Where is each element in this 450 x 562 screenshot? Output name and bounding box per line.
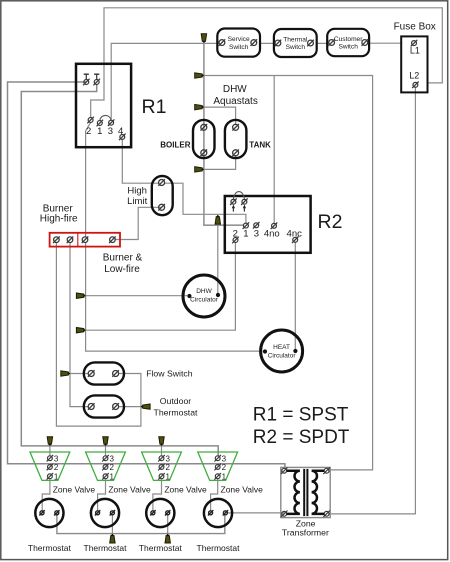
- svg-text:2: 2: [86, 126, 91, 137]
- svg-text:3: 3: [222, 454, 227, 463]
- wire thermostat2 drop: [111, 515, 113, 534]
- thermostat 2: [91, 499, 119, 527]
- svg-text:1: 1: [54, 472, 59, 481]
- wire R1 terminal2 down to burner box terminal3: [86, 123, 91, 237]
- wire valve2 to thermostat2: [98, 479, 106, 511]
- zone valve 1: [30, 452, 70, 481]
- svg-text:R2: R2: [318, 211, 343, 233]
- label Thermostat 1: [28, 543, 72, 553]
- label Thermostat 3: [139, 543, 183, 553]
- svg-text:3: 3: [54, 454, 59, 463]
- fuse box: [401, 36, 427, 92]
- flow arrow at DHW circulator riser: [215, 215, 220, 224]
- svg-text:DHW: DHW: [223, 84, 247, 95]
- wire burner terminal2 down to outdoor thermostat left: [70, 242, 89, 406]
- DHW circulator: [183, 275, 225, 317]
- label R1 = SPST: [253, 405, 349, 426]
- svg-text:BOILER: BOILER: [160, 141, 190, 150]
- label Zone Valve 1: [53, 485, 96, 495]
- svg-text:Switch: Switch: [338, 44, 358, 51]
- svg-text:Thermostat: Thermostat: [28, 543, 72, 553]
- wire branch outdoor thermostat right: [118, 406, 141, 408]
- svg-text:3: 3: [254, 229, 259, 240]
- wire valve1 terminal3 stub: [49, 446, 51, 456]
- svg-text:1: 1: [165, 472, 170, 481]
- wire R1 coil B to left column down to valve-3 bus: [21, 85, 218, 456]
- wire R2 4nc down to heat circulator right dot: [294, 242, 296, 349]
- flow arrow at outdoor thermostat branch: [141, 404, 150, 409]
- svg-text:1: 1: [109, 472, 114, 481]
- wire service to thermal switch: [256, 42, 275, 44]
- svg-text:Thermostat: Thermostat: [139, 543, 183, 553]
- zone transformer: [281, 467, 330, 517]
- svg-text:HEAT: HEAT: [273, 344, 290, 351]
- wire valve1 to thermostat1: [42, 479, 50, 511]
- label TANK: [249, 141, 271, 150]
- wire thermal to customer switch: [313, 42, 330, 44]
- label R2: [318, 211, 343, 233]
- flow switch: [84, 362, 124, 384]
- svg-text:L1: L1: [410, 46, 420, 56]
- high limit: [152, 176, 173, 215]
- tank aquastat: [225, 120, 247, 158]
- wire customer switch to fuse L1: [367, 42, 401, 44]
- wire branch flow switch left: [70, 373, 89, 375]
- wire valve4 to thermostat4: [211, 479, 218, 511]
- flow arrow at zone valve 1 feed: [47, 437, 52, 446]
- wire branch to tank aquastat top: [204, 107, 236, 125]
- wire fuse L2 down to transformer secondary-right... primary-right bottom: [329, 87, 415, 514]
- wire branch to transformer primary-right via right column: [204, 76, 373, 470]
- svg-text:R2 = SPDT: R2 = SPDT: [253, 427, 350, 448]
- wire R1 terminal2 jog up to top and to fuse box L2: [91, 8, 443, 118]
- thermal switch: [274, 29, 317, 57]
- customer switch: [327, 29, 369, 56]
- svg-text:Zone Valve: Zone Valve: [164, 485, 207, 495]
- flow arrow at flow switch branch: [61, 371, 70, 376]
- wire high limit top to R2 terminal1: [164, 183, 246, 223]
- svg-text:3: 3: [109, 454, 114, 463]
- label Zone Valve 2: [108, 485, 151, 495]
- svg-text:4: 4: [118, 126, 123, 137]
- zone valve 3: [142, 452, 182, 481]
- label Zone Valve 4: [221, 485, 264, 495]
- svg-text:Aquastats: Aquastats: [213, 96, 257, 107]
- relay R2: [225, 192, 311, 253]
- wire R1 terminal4 down to high limit top: [122, 140, 159, 184]
- svg-text:TANK: TANK: [249, 141, 271, 150]
- svg-text:Service: Service: [228, 36, 250, 43]
- flow arrow at thermostat2 drop: [110, 534, 115, 543]
- wire tank aquastat bottom loop to main line: [204, 155, 236, 169]
- svg-text:1: 1: [97, 126, 102, 137]
- svg-text:2: 2: [54, 463, 59, 472]
- label BOILER: [160, 141, 190, 150]
- wire valve2 terminal3 stub: [105, 446, 107, 456]
- label Burner High-fire: [40, 204, 78, 225]
- label Zone Valve 3: [164, 485, 207, 495]
- wire branch to DHW circulator left: [86, 295, 187, 297]
- svg-text:2: 2: [109, 463, 114, 472]
- wire valve3 terminal3 stub: [161, 446, 163, 456]
- boiler aquastat: [193, 120, 215, 158]
- wire R1 terminal3 up to service switch: [111, 43, 219, 120]
- svg-text:DHW: DHW: [196, 288, 212, 295]
- wire burner terminal1 loop to flow and outdoor switch right side: [56, 242, 140, 426]
- heat circulator: [261, 330, 303, 372]
- flow arrow at DHW circulator branch: [76, 293, 85, 298]
- svg-text:2: 2: [233, 229, 238, 240]
- outdoor thermostat: [84, 395, 124, 417]
- label Thermostat 4: [197, 543, 241, 553]
- svg-text:Low-fire: Low-fire: [104, 264, 140, 275]
- wire thermostat3 drop: [167, 515, 169, 534]
- label R2 = SPDT: [253, 427, 350, 448]
- wire valve3 to thermostat3: [153, 479, 162, 511]
- flow arrow at zone valve 3 feed: [159, 437, 164, 446]
- wire thermostat chain bus: [57, 515, 225, 534]
- flow arrow at transformer primary branch: [195, 73, 204, 78]
- svg-text:Circulator: Circulator: [268, 353, 297, 360]
- svg-text:3: 3: [165, 454, 170, 463]
- wire R2 terminal2 down and left to column: [86, 243, 236, 331]
- wire thermostat4 right dot to transformer bottom-left: [227, 512, 285, 514]
- svg-text:Limit: Limit: [127, 196, 147, 207]
- svg-text:2: 2: [165, 463, 170, 472]
- svg-text:Zone Valve: Zone Valve: [221, 485, 264, 495]
- svg-text:Circulator: Circulator: [190, 297, 219, 304]
- label Thermostat 2: [84, 543, 128, 553]
- relay R1: [76, 64, 131, 147]
- label Flow Switch: [146, 368, 193, 378]
- svg-text:3: 3: [108, 126, 113, 137]
- svg-text:Fuse Box: Fuse Box: [394, 21, 436, 32]
- svg-text:Transformer: Transformer: [282, 528, 329, 538]
- svg-text:Customer: Customer: [334, 36, 363, 43]
- flow arrow at R2 terminal2 branch: [76, 328, 85, 333]
- svg-text:Outdoor: Outdoor: [160, 396, 191, 406]
- svg-text:Switch: Switch: [286, 44, 306, 51]
- svg-text:1: 1: [222, 472, 227, 481]
- svg-text:Zone Valve: Zone Valve: [53, 485, 96, 495]
- svg-text:Thermal: Thermal: [283, 36, 308, 43]
- svg-text:Switch: Switch: [229, 44, 249, 51]
- flow arrow at tank top branch: [195, 104, 204, 109]
- svg-text:High-fire: High-fire: [40, 214, 78, 225]
- svg-text:R1 = SPST: R1 = SPST: [253, 405, 349, 426]
- svg-text:4nc: 4nc: [287, 229, 303, 240]
- zone valve 4: [198, 452, 238, 481]
- flow arrow at tank bottom branch: [195, 167, 204, 172]
- label High Limit: [127, 185, 147, 207]
- svg-text:R1: R1: [142, 96, 167, 118]
- svg-text:1: 1: [243, 229, 248, 240]
- svg-text:2: 2: [222, 463, 227, 472]
- svg-text:4no: 4no: [264, 229, 280, 240]
- flow arrow at main line top junction: [201, 34, 206, 43]
- thermostat 1: [35, 499, 63, 527]
- svg-text:Thermostat: Thermostat: [84, 543, 128, 553]
- svg-text:L2: L2: [409, 71, 419, 81]
- svg-text:High: High: [127, 185, 147, 196]
- thermostat 3: [146, 499, 174, 527]
- burner terminal strip: [50, 233, 120, 247]
- wire R1 coil A to left column down to valve-2 bus and transformer primary-left: [8, 82, 285, 468]
- label DHW Aquastats: [213, 84, 257, 107]
- label Outdoor Thermostat: [154, 396, 199, 417]
- wire DHW circulator right dot up: [217, 225, 219, 293]
- flow arrow at thermostat3 drop: [165, 534, 170, 543]
- wire thermostat1 right dot stub: [56, 513, 58, 515]
- svg-text:Thermostat: Thermostat: [154, 407, 199, 417]
- label R1: [142, 96, 167, 118]
- label Fuse Box: [394, 21, 436, 32]
- svg-text:Flow Switch: Flow Switch: [146, 368, 193, 378]
- flow arrow at zone valve 2 feed: [103, 437, 108, 446]
- wire burner terminal3 column to heat circulator left: [86, 242, 263, 351]
- svg-text:Burner &: Burner &: [103, 253, 143, 264]
- wire branch down to R2 4no: [273, 76, 275, 224]
- service switch: [217, 29, 260, 57]
- svg-text:Thermostat: Thermostat: [197, 543, 241, 553]
- wire high limit bottom to burner box terminal4: [115, 207, 161, 239]
- thermostat 4: [204, 499, 232, 527]
- zone valve 2: [86, 452, 126, 481]
- wire main hot line down from switch wire to R2 terminal1: [204, 43, 244, 225]
- svg-text:Zone Valve: Zone Valve: [108, 485, 151, 495]
- label Zone Transformer: [282, 519, 329, 538]
- label Burner and Low-fire: [103, 253, 143, 275]
